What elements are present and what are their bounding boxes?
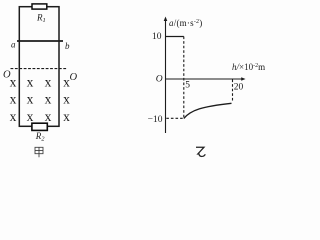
svg-text:x: x	[10, 75, 17, 90]
svg-text:x: x	[63, 109, 70, 124]
svg-text:20: 20	[234, 83, 244, 93]
svg-text:−10: −10	[148, 115, 163, 125]
svg-text:O: O	[3, 70, 11, 81]
svg-text:x: x	[10, 109, 17, 124]
svg-text:x: x	[45, 92, 52, 107]
svg-text:x: x	[63, 92, 70, 107]
svg-text:a: a	[11, 39, 16, 49]
svg-text:O: O	[70, 72, 78, 83]
svg-text:h/×10-2m: h/×10-2m	[232, 62, 265, 72]
svg-text:x: x	[10, 92, 17, 107]
svg-text:x: x	[27, 109, 34, 124]
svg-text:x: x	[27, 75, 34, 90]
svg-text:10: 10	[152, 32, 162, 42]
svg-text:x: x	[45, 75, 52, 90]
svg-text:5: 5	[185, 81, 190, 91]
svg-text:x: x	[27, 92, 34, 107]
svg-text:x: x	[45, 109, 52, 124]
svg-text:O: O	[156, 75, 163, 85]
svg-text:b: b	[65, 41, 70, 51]
